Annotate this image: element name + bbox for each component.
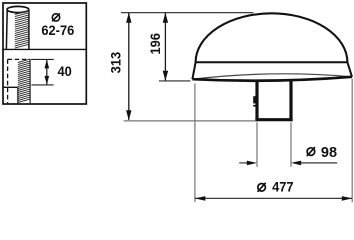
bowl bottom curve bbox=[192, 77, 352, 81]
panel box frame bbox=[3, 3, 86, 104]
svg-text:98: 98 bbox=[321, 145, 337, 161]
svg-text:40: 40 bbox=[57, 63, 71, 79]
post clamp screw tabs bbox=[253, 96, 255, 106]
svg-text:196: 196 bbox=[148, 33, 164, 54]
dim 40 arrow up bbox=[45, 59, 50, 68]
label 62-76 bbox=[41, 23, 74, 39]
dim O477 right arrow bbox=[342, 196, 352, 201]
dim 196 bottom tick bbox=[159, 80, 191, 82]
diameter symbol O477 bbox=[258, 183, 266, 192]
svg-text:313: 313 bbox=[108, 52, 124, 73]
pole top edge line bbox=[3, 86, 18, 88]
dim O477 left arrow bbox=[195, 196, 205, 201]
dim O98 right leader bbox=[300, 162, 337, 164]
left extension line bbox=[194, 83, 196, 202]
spigot thread hatch bottom bbox=[18, 59, 30, 102]
band line bbox=[196, 61, 348, 63]
dim 40 extension ticks bbox=[31, 59, 54, 85]
dim O477 dimension line bbox=[195, 197, 352, 199]
label 313 rotated bbox=[108, 52, 124, 73]
label 40 bbox=[57, 63, 71, 79]
panel divider bbox=[3, 48, 86, 50]
spigot post right wall bbox=[289, 81, 292, 121]
left slant edge bbox=[192, 62, 195, 79]
rim top curve bbox=[192, 74, 352, 79]
spigot post bottom wall bbox=[255, 118, 292, 121]
right slant edge bbox=[347, 62, 352, 77]
dome arc bbox=[196, 13, 348, 62]
label 98 bbox=[321, 145, 337, 161]
O98 right extension line bbox=[290, 122, 292, 167]
pole cylinder body bbox=[6, 10, 29, 49]
pole thread hatch top bbox=[15, 11, 29, 48]
spigot post left wall bbox=[255, 82, 258, 122]
diameter symbol box1 bbox=[52, 14, 60, 22]
label 477 bbox=[272, 179, 293, 195]
dim 196 arrow up bbox=[163, 13, 168, 23]
dim 313 dimension line bbox=[128, 13, 130, 120]
dim 40 arrow down bbox=[45, 76, 50, 85]
spigot threaded edges bbox=[18, 60, 30, 104]
O98 left extension line bbox=[256, 122, 258, 167]
dim O98 left arrow bbox=[247, 161, 257, 166]
pole cylinder top ellipse bbox=[7, 6, 29, 12]
dim O98 left leader bbox=[239, 162, 247, 164]
svg-text:477: 477 bbox=[272, 179, 293, 195]
dim 196 arrow down bbox=[163, 71, 168, 81]
dim 196 dimension line bbox=[164, 13, 166, 81]
label 196 rotated bbox=[148, 33, 164, 54]
spigot hidden outline dashed top bbox=[8, 58, 31, 60]
svg-text:62-76: 62-76 bbox=[41, 23, 74, 39]
top extension line bbox=[121, 12, 253, 14]
diameter symbol O98 bbox=[307, 147, 315, 156]
dim 313 arrow down bbox=[126, 110, 131, 120]
right extension line bbox=[351, 79, 353, 203]
dim 313 bottom tick bbox=[124, 120, 256, 122]
dim 40 dimension line bbox=[46, 60, 48, 84]
spigot hidden outline dashed left bbox=[7, 59, 9, 103]
dim 313 arrow up bbox=[126, 13, 131, 23]
dim O98 right arrow bbox=[291, 161, 301, 166]
